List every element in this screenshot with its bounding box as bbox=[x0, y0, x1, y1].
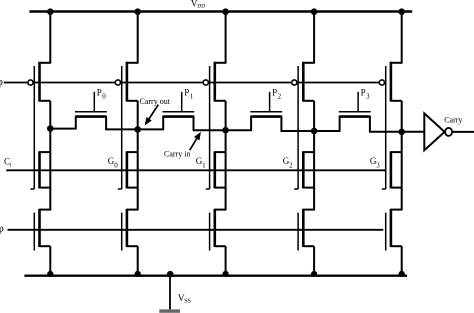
svg-text:0: 0 bbox=[114, 161, 118, 169]
svg-text:Carry out: Carry out bbox=[140, 97, 171, 106]
svg-text:P: P bbox=[272, 88, 277, 98]
svg-text:Carry: Carry bbox=[444, 116, 462, 125]
svg-text:3: 3 bbox=[366, 93, 370, 101]
svg-text:2: 2 bbox=[278, 93, 282, 101]
svg-text:P: P bbox=[184, 88, 189, 98]
svg-text:2: 2 bbox=[289, 161, 293, 169]
svg-text:φ: φ bbox=[0, 77, 3, 88]
svg-text:P: P bbox=[97, 88, 102, 98]
svg-text:P: P bbox=[361, 88, 366, 98]
svg-text:1: 1 bbox=[202, 161, 206, 169]
svg-text:3: 3 bbox=[376, 161, 380, 169]
svg-text:DD: DD bbox=[197, 4, 205, 10]
svg-text:φ: φ bbox=[0, 223, 4, 234]
svg-text:Carry in: Carry in bbox=[164, 150, 190, 159]
svg-text:SS: SS bbox=[184, 298, 191, 304]
svg-text:1: 1 bbox=[190, 93, 194, 101]
svg-text:0: 0 bbox=[102, 93, 106, 101]
